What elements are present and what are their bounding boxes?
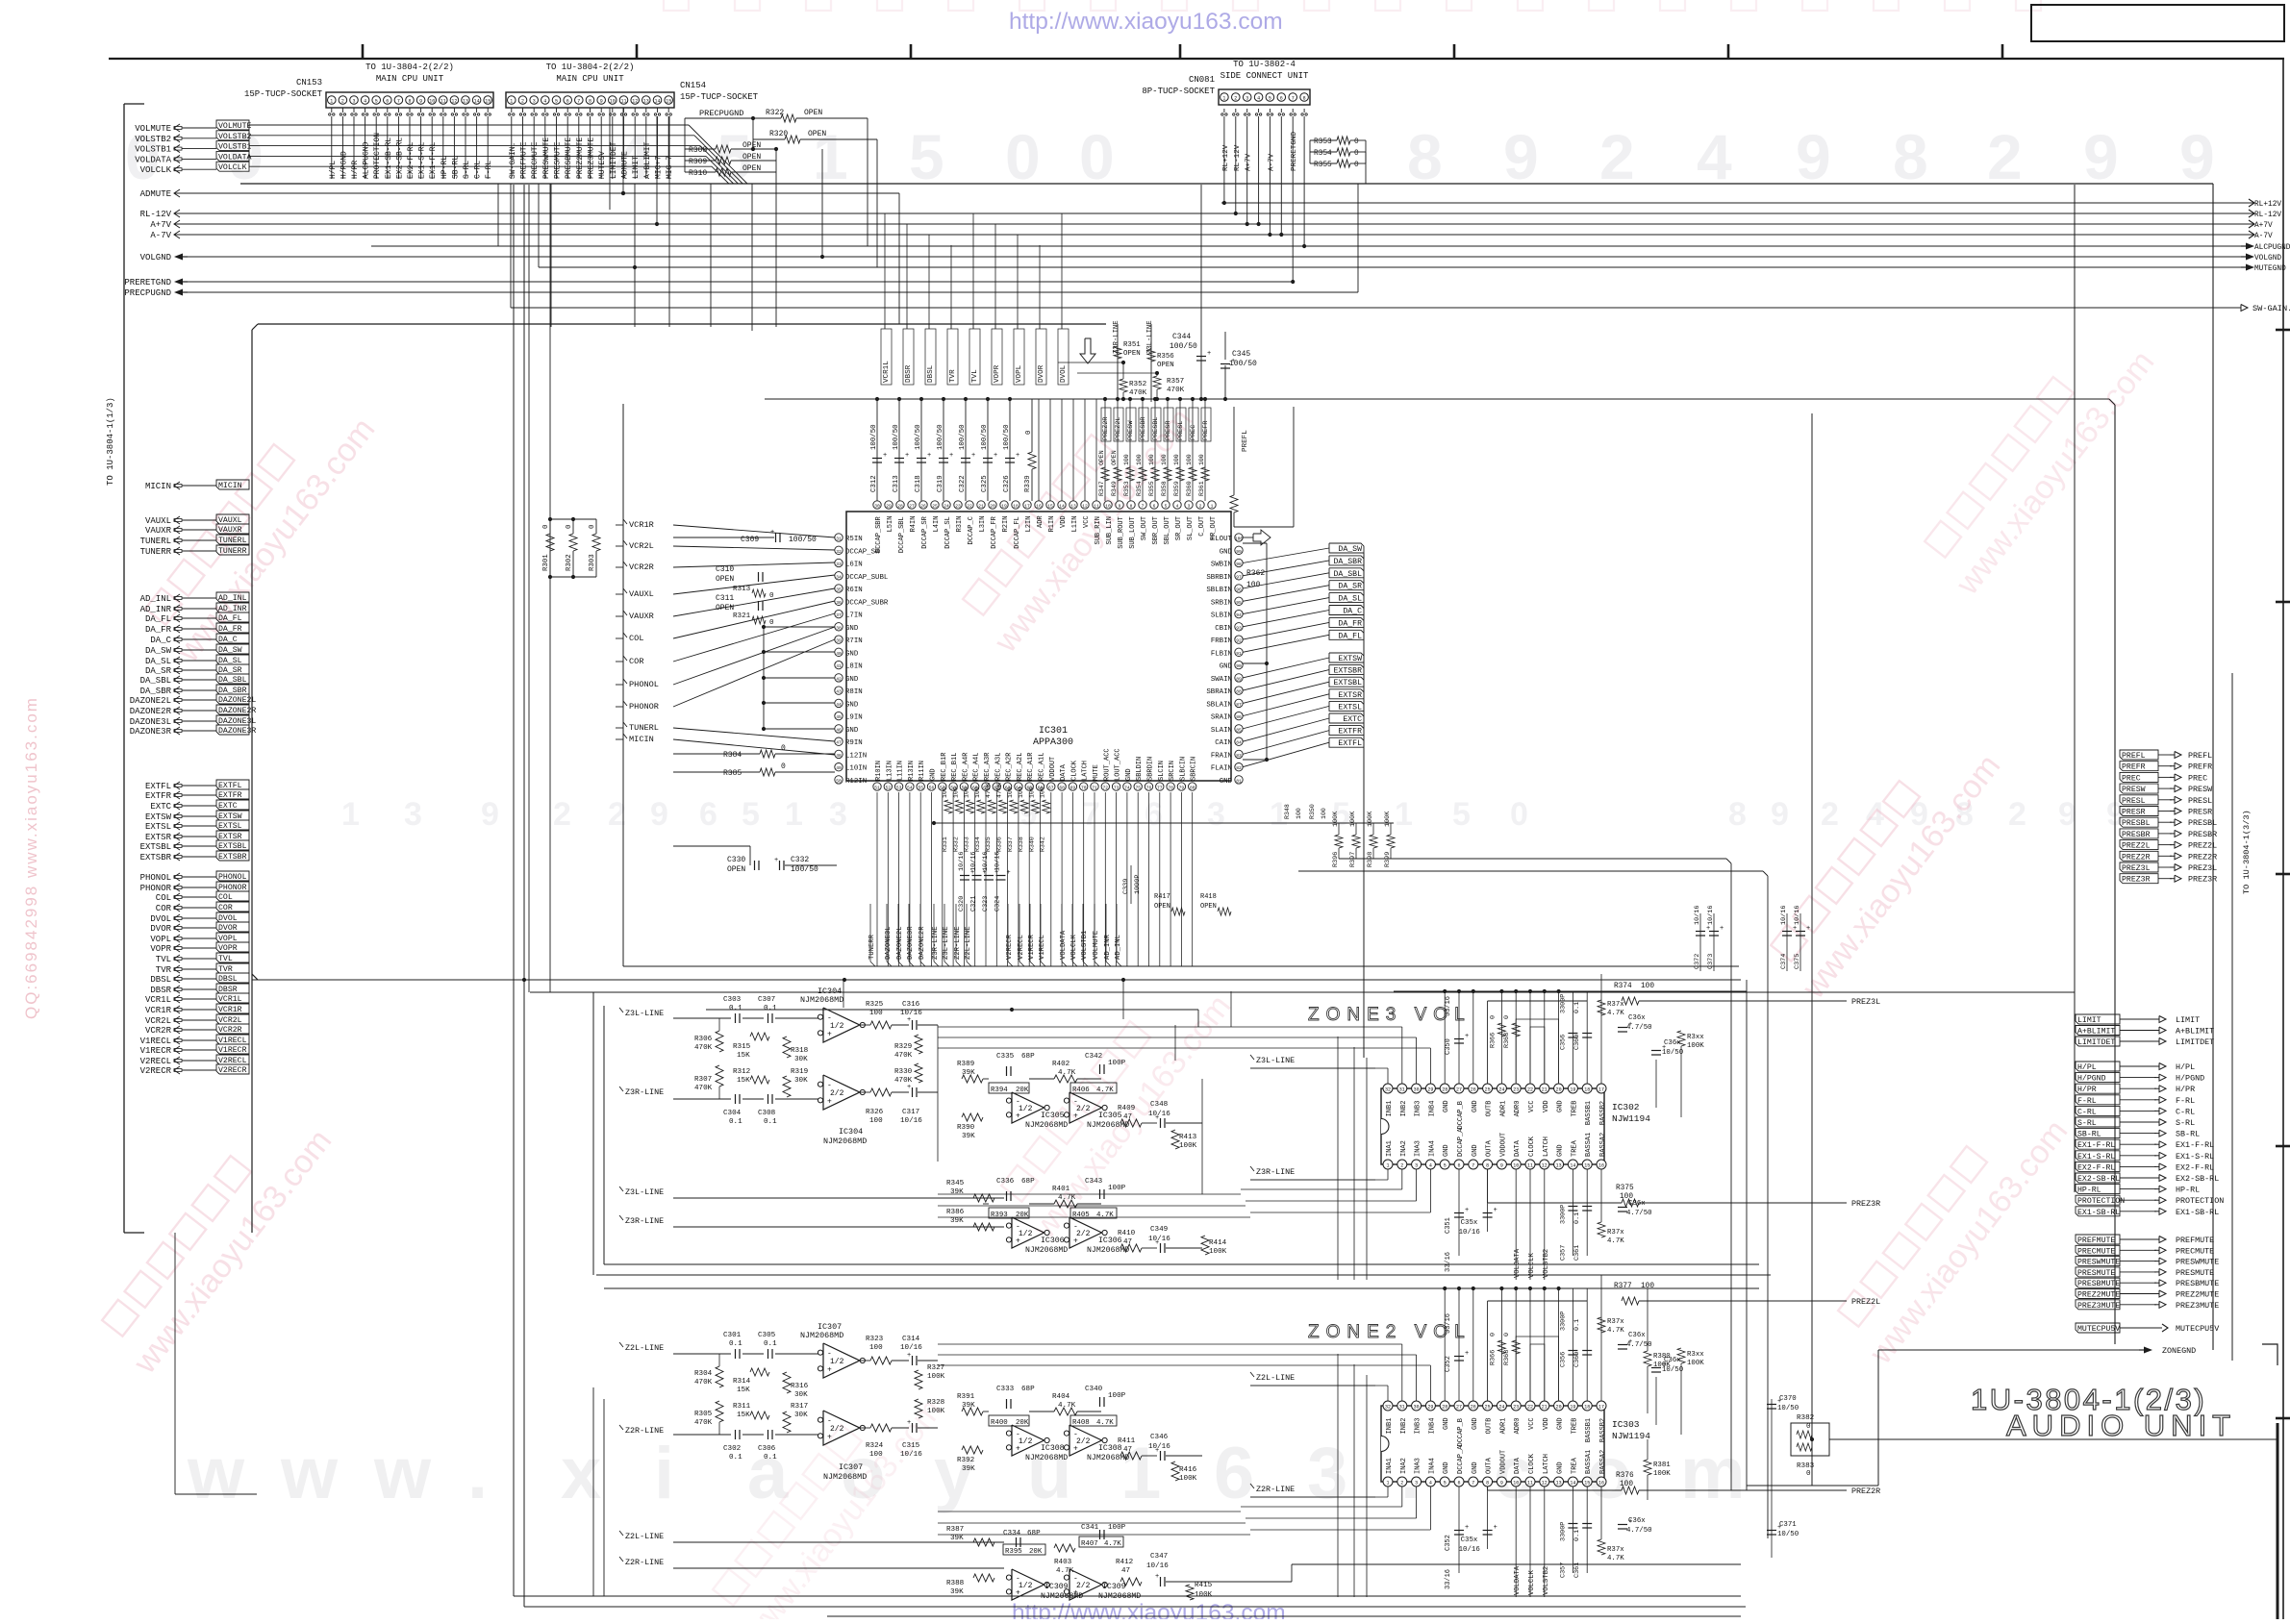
svg-text:VCR1L: VCR1L	[145, 995, 171, 1005]
svg-text:+: +	[1465, 1207, 1469, 1214]
svg-text:470K: 470K	[694, 1044, 713, 1052]
svg-text:PREFMUTE: PREFMUTE	[2077, 1237, 2115, 1245]
svg-text:C315: C315	[902, 1442, 920, 1450]
svg-text:PREFR: PREFR	[1202, 421, 1210, 440]
svg-text:VCR2R: VCR2R	[145, 1026, 172, 1036]
svg-text:DA_C: DA_C	[150, 636, 171, 645]
svg-text:OPEN: OPEN	[1111, 450, 1118, 465]
svg-text:10/16: 10/16	[958, 852, 966, 871]
svg-text:VOPR: VOPR	[994, 364, 1001, 383]
svg-text:TO 1U-3804-1(1/3): TO 1U-3804-1(1/3)	[106, 397, 115, 486]
svg-text:OPEN: OPEN	[716, 575, 734, 584]
svg-text:ROUT_ACC: ROUT_ACC	[1103, 748, 1111, 781]
svg-text:R387: R387	[946, 1526, 964, 1534]
svg-text:10/50: 10/50	[1777, 1405, 1799, 1412]
svg-text:L6IN: L6IN	[845, 562, 863, 569]
svg-text:3: 3	[404, 796, 422, 833]
svg-text:REC_A4L: REC_A4L	[973, 753, 981, 781]
svg-text:C373: C373	[1707, 954, 1715, 969]
svg-text:C374: C374	[1780, 954, 1788, 969]
svg-text:SRCIN: SRCIN	[1169, 761, 1176, 781]
svg-text:DAZONE3L: DAZONE3L	[130, 717, 171, 727]
svg-text:L9IN: L9IN	[845, 714, 863, 722]
svg-text:GND: GND	[845, 650, 859, 658]
svg-text:DAZONE2L: DAZONE2L	[130, 696, 171, 706]
svg-text:86: 86	[1236, 714, 1242, 720]
svg-text:R360: R360	[1186, 481, 1193, 496]
svg-text:F-RL: F-RL	[485, 161, 493, 179]
svg-text:R389: R389	[957, 1061, 975, 1068]
svg-text:12: 12	[632, 99, 638, 105]
svg-text:H/PR: H/PR	[2077, 1085, 2097, 1094]
svg-text:VOLSTB2: VOLSTB2	[1543, 1249, 1550, 1278]
svg-text:R376: R376	[1616, 1472, 1634, 1480]
svg-text:470K: 470K	[1129, 389, 1147, 397]
svg-text:32: 32	[1385, 1087, 1391, 1093]
svg-text:PREZ2MUTE: PREZ2MUTE	[576, 137, 585, 179]
svg-text:7: 7	[1082, 796, 1100, 833]
svg-text:SBLBIN: SBLBIN	[1206, 587, 1232, 594]
svg-text:R345: R345	[946, 1180, 965, 1187]
svg-text:C302: C302	[723, 1445, 742, 1453]
svg-text:-: -	[1016, 1223, 1020, 1232]
svg-text:84: 84	[1236, 740, 1242, 746]
svg-text:L8IN: L8IN	[845, 663, 863, 671]
svg-text:2: 2	[1821, 796, 1839, 833]
svg-text:29: 29	[1427, 1405, 1433, 1411]
svg-text:2/2: 2/2	[1076, 1105, 1091, 1113]
svg-text:10: 10	[1513, 1481, 1519, 1487]
svg-text:GND: GND	[1557, 1144, 1565, 1157]
svg-text:68P: 68P	[1027, 1530, 1041, 1537]
svg-text:A+7V: A+7V	[2254, 222, 2273, 230]
svg-text:+: +	[905, 452, 909, 460]
svg-text:VOLDATA: VOLDATA	[135, 155, 171, 164]
svg-text:PRESL: PRESL	[1177, 421, 1185, 440]
svg-text:VOLDATA: VOLDATA	[1514, 1248, 1522, 1278]
svg-text:92: 92	[1236, 638, 1242, 644]
svg-text:28: 28	[1442, 1405, 1447, 1411]
svg-text:DVOR: DVOR	[1038, 364, 1045, 383]
svg-text:R13IN: R13IN	[908, 761, 916, 781]
svg-text:15P-TUCP-SOCKET: 15P-TUCP-SOCKET	[244, 89, 323, 99]
svg-text:3300P: 3300P	[1559, 994, 1567, 1013]
svg-text:9: 9	[1119, 504, 1121, 510]
svg-text:19: 19	[1001, 504, 1007, 510]
svg-text:F-RL: F-RL	[2176, 1096, 2195, 1106]
svg-text:EX2-F-RL: EX2-F-RL	[2077, 1163, 2115, 1172]
svg-text:PROTECTION: PROTECTION	[373, 133, 382, 179]
svg-text:+: +	[883, 452, 887, 460]
svg-text:C312: C312	[870, 475, 878, 492]
svg-text:VCR1R: VCR1R	[145, 1006, 172, 1015]
svg-text:VDD: VDD	[1543, 1100, 1550, 1112]
svg-text:R332: R332	[952, 837, 959, 852]
svg-text:100: 100	[1173, 454, 1180, 465]
svg-text:R329: R329	[894, 1043, 913, 1051]
svg-text:AD_INL: AD_INL	[140, 594, 171, 604]
svg-text:INB1: INB1	[1386, 1418, 1394, 1435]
svg-text:C36x: C36x	[1628, 1332, 1646, 1339]
svg-text:55: 55	[918, 786, 923, 791]
svg-text:Z3L-LINE: Z3L-LINE	[1256, 1056, 1295, 1065]
svg-text:DA_SBL: DA_SBL	[140, 676, 171, 686]
svg-text:10/16: 10/16	[1146, 1562, 1169, 1570]
svg-text:DATA: DATA	[1060, 763, 1068, 781]
svg-text:VOLGND: VOLGND	[140, 253, 171, 262]
svg-text:DCCAP_A: DCCAP_A	[1457, 1445, 1465, 1474]
svg-text:VOLGND: VOLGND	[2254, 255, 2281, 262]
svg-text:100: 100	[1321, 808, 1327, 819]
svg-text:90: 90	[1236, 663, 1242, 669]
svg-text:PREZ2R: PREZ2R	[1851, 1487, 1880, 1496]
svg-text:VCC: VCC	[1528, 1100, 1536, 1112]
svg-text:TUNERR: TUNERR	[868, 934, 876, 960]
svg-text:MIC-7: MIC-7	[666, 156, 674, 179]
svg-text:COL: COL	[629, 634, 643, 643]
svg-text:Z3R-LINE: Z3R-LINE	[625, 1216, 664, 1226]
svg-text:C311: C311	[716, 594, 734, 603]
svg-text:19: 19	[1570, 1405, 1575, 1411]
svg-text:98: 98	[1236, 562, 1242, 567]
svg-text:27: 27	[1456, 1087, 1462, 1093]
svg-text:R333: R333	[964, 837, 970, 852]
svg-text:A-7V: A-7V	[2254, 233, 2273, 240]
svg-text:V1RECR: V1RECR	[218, 1046, 247, 1055]
svg-text:100: 100	[1620, 1481, 1633, 1488]
svg-text:47: 47	[1123, 1446, 1132, 1454]
svg-text:INA1: INA1	[1386, 1458, 1394, 1474]
svg-text:1: 1	[1395, 796, 1413, 833]
svg-text:PRESR: PRESR	[1165, 421, 1172, 440]
svg-text:R396: R396	[1332, 852, 1340, 867]
svg-text:32: 32	[1385, 1405, 1391, 1411]
svg-text:0: 0	[1079, 121, 1115, 192]
svg-text:C371: C371	[1779, 1521, 1797, 1529]
svg-text:100/50: 100/50	[937, 424, 944, 450]
svg-text:DCCAP_SBR: DCCAP_SBR	[875, 515, 883, 553]
svg-text:L7IN: L7IN	[845, 612, 863, 620]
svg-text:25: 25	[932, 504, 938, 510]
svg-text:5: 5	[1452, 796, 1471, 833]
svg-text:PREZ3R: PREZ3R	[1851, 1199, 1880, 1209]
svg-text:V2RECR: V2RECR	[1006, 934, 1014, 960]
svg-text:14: 14	[1570, 1481, 1575, 1487]
svg-text:DA_C: DA_C	[1343, 608, 1362, 616]
svg-text:73: 73	[1114, 786, 1120, 791]
svg-text:R413: R413	[1179, 1134, 1197, 1141]
svg-text:R326: R326	[866, 1109, 884, 1116]
svg-text:PREFMUTE: PREFMUTE	[520, 141, 529, 179]
svg-text:9: 9	[1503, 121, 1539, 192]
svg-text:100K: 100K	[927, 1373, 945, 1381]
svg-text:48: 48	[836, 753, 842, 759]
svg-text:R353: R353	[1123, 481, 1130, 496]
svg-text:+: +	[994, 452, 997, 460]
svg-text:MUTECPU5V: MUTECPU5V	[2176, 1324, 2219, 1334]
svg-text:+: +	[1016, 1444, 1020, 1453]
svg-text:PREC: PREC	[2188, 773, 2207, 783]
svg-text:88: 88	[1236, 689, 1242, 695]
svg-text:0: 0	[1354, 162, 1359, 169]
svg-text:9: 9	[1500, 1481, 1503, 1487]
svg-text:PREZ2MUTE: PREZ2MUTE	[2176, 1290, 2219, 1300]
svg-text:2/2: 2/2	[830, 1089, 844, 1098]
svg-text:0.1: 0.1	[729, 1118, 742, 1126]
svg-text:10/16: 10/16	[1148, 1111, 1170, 1118]
svg-text:V1RECR: V1RECR	[140, 1046, 172, 1056]
svg-text:3: 3	[829, 796, 847, 833]
svg-text:4.7K: 4.7K	[1096, 1419, 1114, 1427]
svg-text:+: +	[927, 452, 931, 460]
svg-text:m: m	[1680, 1433, 1746, 1514]
svg-text:Z2R-LINE: Z2R-LINE	[954, 926, 962, 960]
svg-text:4.7K: 4.7K	[1607, 1555, 1624, 1562]
svg-text:EXTFL: EXTFL	[145, 782, 171, 791]
svg-text:29: 29	[1427, 1087, 1433, 1093]
svg-text:SBLDIN: SBLDIN	[1136, 757, 1144, 781]
svg-text:V2RECR: V2RECR	[218, 1066, 247, 1075]
svg-text:PREC: PREC	[2122, 774, 2141, 783]
svg-text:100: 100	[1161, 454, 1168, 465]
svg-text:PRECMUTE: PRECMUTE	[2176, 1246, 2214, 1256]
svg-text:C357: C357	[1559, 1562, 1567, 1578]
svg-text:R397: R397	[1349, 852, 1357, 867]
svg-text:C330: C330	[727, 856, 745, 864]
svg-text:100: 100	[1198, 454, 1205, 465]
svg-text:BASSB1: BASSB1	[1585, 1101, 1593, 1125]
svg-text:68: 68	[1059, 786, 1065, 791]
svg-text:PRECPUGND: PRECPUGND	[699, 109, 743, 118]
svg-text:R321: R321	[733, 612, 751, 620]
svg-text:10/16: 10/16	[1459, 1229, 1480, 1237]
svg-text:TO 1U-3804-2(2/2): TO 1U-3804-2(2/2)	[365, 62, 454, 72]
svg-text:SBRBIN: SBRBIN	[1206, 574, 1232, 582]
svg-text:83: 83	[1236, 753, 1242, 759]
svg-text:PRESMUTE: PRESMUTE	[554, 141, 563, 179]
svg-text:12: 12	[451, 99, 457, 105]
svg-text:37: 37	[836, 612, 842, 618]
svg-text:AD_INL: AD_INL	[218, 594, 247, 603]
svg-text:DAZONE3L: DAZONE3L	[885, 926, 893, 960]
svg-text:3: 3	[1415, 1163, 1418, 1169]
svg-text:SRAIN: SRAIN	[1211, 714, 1232, 722]
svg-text:H/PL: H/PL	[329, 161, 338, 179]
svg-text:10/16: 10/16	[900, 1010, 922, 1017]
svg-text:8: 8	[1486, 1481, 1489, 1487]
svg-text:V1RECL: V1RECL	[140, 1037, 171, 1046]
svg-text:77: 77	[1157, 786, 1163, 791]
svg-text:39K: 39K	[962, 1465, 975, 1473]
svg-text:DCCAP_FR: DCCAP_FR	[991, 515, 998, 548]
svg-text:21: 21	[978, 504, 984, 510]
svg-text:PREZ3MUTE: PREZ3MUTE	[588, 137, 596, 179]
svg-text:6: 6	[1457, 1481, 1460, 1487]
svg-text:89: 89	[1236, 676, 1242, 682]
svg-text:C343: C343	[1085, 1178, 1103, 1186]
svg-text:R12IN: R12IN	[845, 778, 867, 786]
svg-text:DA_SR: DA_SR	[145, 666, 172, 676]
svg-text:ADR0: ADR0	[1514, 1101, 1522, 1117]
svg-text:+: +	[1465, 1033, 1469, 1040]
svg-text:13: 13	[463, 99, 468, 105]
svg-text:PHONOR: PHONOR	[140, 884, 172, 893]
svg-text:SUB_LIN: SUB_LIN	[1106, 516, 1114, 544]
svg-text:A-7V: A-7V	[150, 231, 171, 240]
svg-text:DAZONE2L: DAZONE2L	[896, 926, 904, 960]
svg-text:100: 100	[1007, 787, 1014, 798]
svg-text:100: 100	[869, 1451, 883, 1459]
svg-text:EX1-S-RL: EX1-S-RL	[2077, 1153, 2115, 1162]
svg-text:R366: R366	[1489, 1350, 1497, 1365]
svg-text:CBIN: CBIN	[1215, 625, 1232, 633]
svg-text:R374: R374	[1614, 983, 1632, 990]
svg-text:52: 52	[886, 786, 892, 791]
svg-text:+: +	[1073, 1112, 1078, 1120]
svg-text:29: 29	[886, 504, 892, 510]
svg-text:R307: R307	[694, 1076, 712, 1084]
svg-text:27: 27	[909, 504, 915, 510]
svg-text:V1RECL: V1RECL	[1039, 935, 1046, 960]
svg-text:AD_INR: AD_INR	[140, 605, 172, 614]
svg-text:GND: GND	[1557, 1417, 1565, 1430]
svg-text:PREFL: PREFL	[2122, 752, 2146, 761]
svg-text:7: 7	[1142, 504, 1145, 510]
svg-text:+: +	[827, 1433, 832, 1441]
svg-text:REC_A4R: REC_A4R	[962, 752, 969, 781]
svg-text:TUNERR: TUNERR	[140, 547, 172, 557]
svg-text:C352: C352	[1445, 1356, 1452, 1372]
svg-text:EXTC: EXTC	[150, 802, 171, 812]
svg-text:QQ:669842998 www.xiaoyu163.co: QQ:669842998 www.xiaoyu163.com	[22, 696, 40, 1019]
svg-text:DA_FL: DA_FL	[1338, 632, 1362, 640]
svg-text:70: 70	[1081, 786, 1087, 791]
svg-text:47: 47	[1123, 1238, 1132, 1246]
svg-text:100: 100	[952, 787, 959, 798]
svg-text:23: 23	[1513, 1405, 1519, 1411]
svg-text:C320: C320	[958, 896, 966, 912]
svg-text:100: 100	[1028, 787, 1035, 798]
svg-text:PREZ3L: PREZ3L	[2122, 864, 2151, 873]
svg-text:Z3L-LINE: Z3L-LINE	[625, 1009, 664, 1018]
svg-text:EXTSL: EXTSL	[218, 822, 242, 831]
svg-text:R368: R368	[1503, 1350, 1511, 1365]
svg-text:INA3: INA3	[1415, 1458, 1422, 1474]
svg-text:+: +	[1207, 350, 1211, 358]
svg-text:4.7K: 4.7K	[1096, 1087, 1114, 1094]
svg-text:GND: GND	[1443, 1462, 1450, 1474]
svg-text:BASSA1: BASSA1	[1585, 1450, 1593, 1474]
svg-text:100: 100	[1235, 537, 1244, 542]
svg-text:VAUXR: VAUXR	[145, 526, 172, 536]
svg-text:GND: GND	[1220, 663, 1233, 671]
svg-text:ALCPUGND: ALCPUGND	[363, 141, 371, 179]
svg-text:INA3: INA3	[1415, 1140, 1422, 1157]
svg-text:100K: 100K	[1687, 1360, 1704, 1367]
svg-text:INA4: INA4	[1428, 1458, 1436, 1474]
svg-text:39K: 39K	[950, 1217, 964, 1225]
svg-text:PREFL: PREFL	[2188, 751, 2212, 761]
svg-text:RL-12V: RL-12V	[2254, 212, 2281, 219]
svg-text:R1IN: R1IN	[1048, 516, 1056, 533]
svg-text:C36x: C36x	[1628, 1200, 1646, 1208]
svg-text:10/16: 10/16	[970, 852, 978, 871]
svg-text:100/50: 100/50	[1170, 342, 1197, 351]
svg-text:470K: 470K	[996, 783, 1003, 798]
svg-text:LIMITDET: LIMITDET	[2077, 1038, 2115, 1047]
svg-text:10/16: 10/16	[994, 852, 1002, 871]
svg-text:+: +	[1016, 1588, 1020, 1597]
svg-text:+: +	[1465, 1524, 1469, 1532]
svg-text:R357: R357	[1167, 378, 1184, 386]
svg-text:6: 6	[1457, 1163, 1460, 1169]
svg-text:EX2-SB-RL: EX2-SB-RL	[2077, 1175, 2120, 1184]
svg-text:3300P: 3300P	[1559, 1205, 1567, 1224]
svg-text:V2RECL: V2RECL	[1018, 935, 1025, 960]
svg-text:100P: 100P	[1108, 1185, 1126, 1192]
svg-text:IC306: IC306	[1041, 1237, 1065, 1245]
svg-text:VDDOUT: VDDOUT	[1499, 1450, 1507, 1474]
svg-text:2: 2	[1400, 1481, 1403, 1487]
svg-text:32: 32	[836, 549, 842, 555]
svg-text:OPEN: OPEN	[1123, 350, 1141, 358]
svg-text:15: 15	[1584, 1163, 1590, 1169]
svg-text:INA1: INA1	[1386, 1140, 1394, 1157]
svg-text:4.7K: 4.7K	[1607, 1237, 1624, 1245]
svg-text:VDDOUT: VDDOUT	[1049, 757, 1057, 781]
svg-text:0: 0	[1005, 121, 1041, 192]
svg-text:MUTEGND: MUTEGND	[2254, 265, 2286, 273]
svg-text:+: +	[1073, 1237, 1078, 1245]
svg-text:AUDIO UNIT: AUDIO UNIT	[2006, 1409, 2236, 1442]
svg-text:LIMIT: LIMIT	[632, 156, 641, 179]
svg-text:DVOR: DVOR	[150, 924, 171, 934]
svg-text:TVR: TVR	[156, 965, 172, 975]
svg-text:R6IN: R6IN	[845, 587, 863, 594]
svg-text:DA_SBL: DA_SBL	[218, 676, 247, 685]
svg-text:OUTB: OUTB	[1486, 1418, 1494, 1435]
svg-text:NJM2068MD: NJM2068MD	[1025, 1121, 1068, 1130]
svg-text:+: +	[1016, 1237, 1020, 1245]
svg-text:+: +	[1231, 358, 1235, 365]
svg-text:30K: 30K	[794, 1391, 808, 1399]
svg-text:C344: C344	[1172, 333, 1191, 341]
svg-text:VOLCLK: VOLCLK	[1528, 1252, 1536, 1278]
svg-text:PRESMUTE: PRESMUTE	[2176, 1268, 2214, 1278]
svg-text:470K: 470K	[985, 783, 992, 798]
svg-text:C340: C340	[1085, 1386, 1103, 1393]
svg-text:R348: R348	[1284, 804, 1291, 819]
svg-text:47: 47	[1121, 1567, 1130, 1575]
svg-text:NJM2068MD: NJM2068MD	[1025, 1246, 1068, 1255]
svg-text:R407: R407	[1081, 1540, 1098, 1548]
svg-text:R384: R384	[723, 751, 742, 760]
svg-text:DATA: DATA	[1514, 1139, 1522, 1157]
svg-text:R355: R355	[1148, 481, 1155, 496]
svg-text:REC_B1L: REC_B1L	[951, 753, 959, 781]
svg-text:H/PR: H/PR	[2176, 1085, 2195, 1094]
svg-text:SL_OUT: SL_OUT	[1187, 516, 1195, 540]
svg-text:15: 15	[666, 99, 671, 105]
svg-text:INB4: INB4	[1428, 1101, 1436, 1117]
svg-text:EXTSW: EXTSW	[1338, 655, 1362, 663]
svg-text:22: 22	[1527, 1087, 1533, 1093]
svg-text:100K: 100K	[1653, 1470, 1671, 1478]
svg-text:11: 11	[620, 99, 626, 105]
svg-text:C316: C316	[902, 1001, 920, 1009]
svg-text:VOLMUTE: VOLMUTE	[218, 122, 251, 131]
svg-text:+: +	[1016, 452, 1019, 460]
